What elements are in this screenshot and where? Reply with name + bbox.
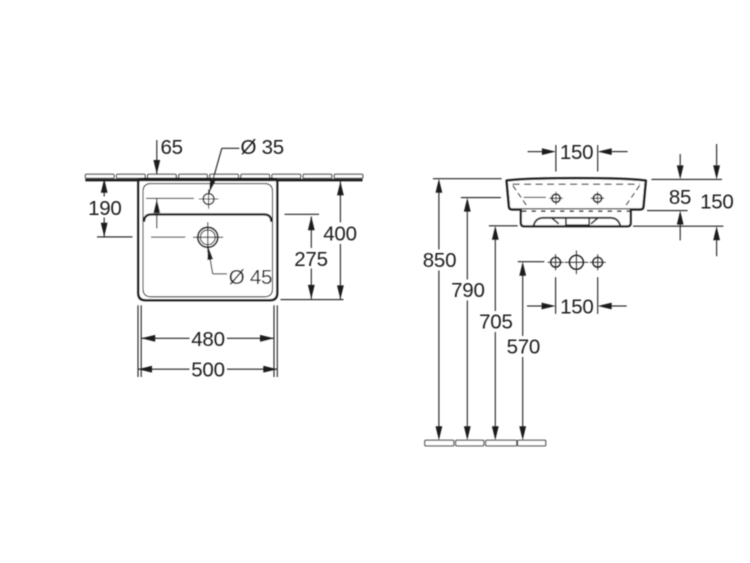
svg-text:Ø 35: Ø 35 (241, 136, 284, 159)
svg-text:150: 150 (560, 296, 593, 319)
svg-text:480: 480 (191, 328, 224, 351)
svg-text:705: 705 (479, 311, 512, 334)
svg-text:190: 190 (88, 197, 121, 220)
svg-text:570: 570 (507, 336, 540, 359)
svg-text:400: 400 (323, 222, 356, 245)
svg-text:150: 150 (560, 141, 593, 164)
svg-text:65: 65 (161, 136, 183, 159)
svg-text:Ø 45: Ø 45 (229, 266, 272, 289)
svg-text:790: 790 (451, 279, 484, 302)
svg-text:850: 850 (423, 249, 456, 272)
svg-text:500: 500 (191, 359, 224, 382)
svg-text:85: 85 (669, 186, 691, 209)
svg-text:150: 150 (700, 191, 733, 214)
svg-text:275: 275 (294, 248, 327, 271)
